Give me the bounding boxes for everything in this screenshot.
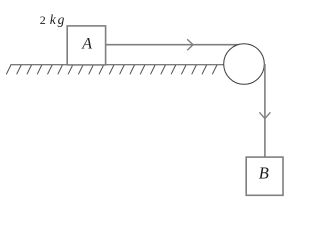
pulley circle [224,44,265,85]
ground hatching [6,65,217,74]
arrowhead on horizontal rope [187,39,193,50]
svg-text:A: A [81,35,92,52]
block B [246,157,283,195]
arrowhead on vertical rope [259,112,270,118]
ground line [10,64,224,66]
svg-text:kg: kg [50,12,66,27]
svg-text:B: B [259,164,269,183]
block A [67,26,105,65]
wire: vertical rope from pulley down to block B [264,64,266,158]
wire: horizontal rope from block A to pulley [106,44,241,46]
svg-text:2: 2 [40,13,46,27]
